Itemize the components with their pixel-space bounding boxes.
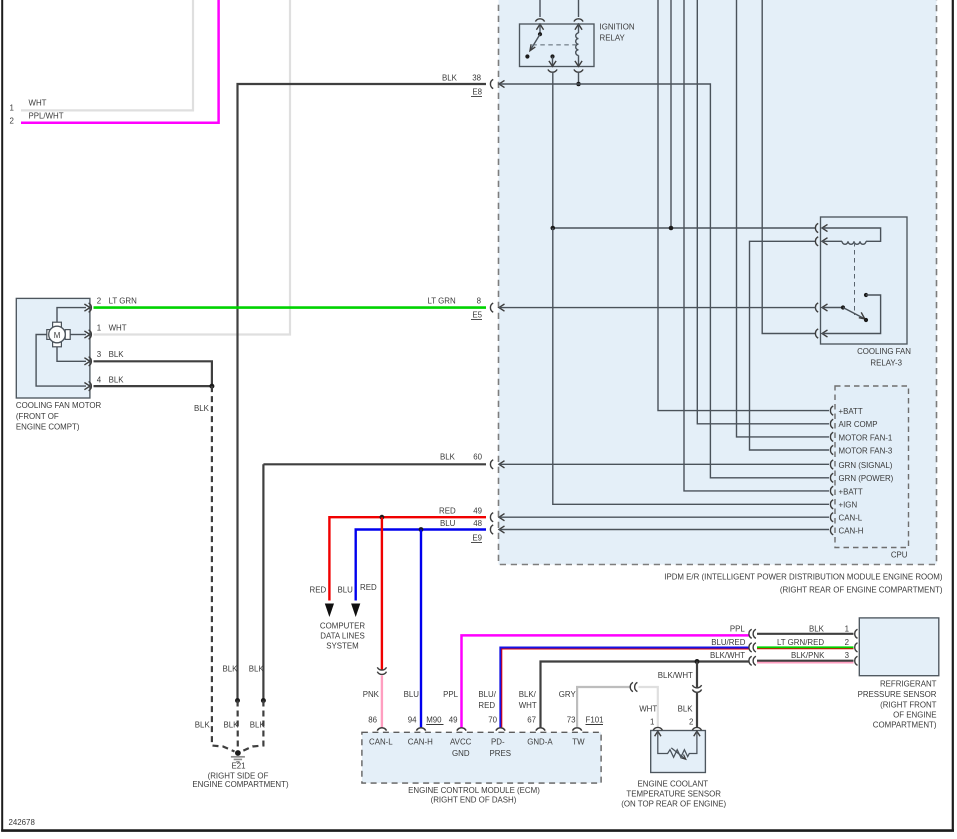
ECM pin 70 PD-PRES	[478, 690, 511, 758]
wire PPL from ECM pin 49 to inline connector	[462, 635, 750, 728]
svg-text:BLK: BLK	[224, 721, 240, 730]
junction on BLK38 run	[235, 698, 240, 703]
ground E21 symbol	[231, 750, 245, 762]
connector arrow BLU48	[499, 526, 505, 533]
svg-text:BLK/WHT: BLK/WHT	[710, 651, 745, 660]
sensor pin 3 arc	[855, 656, 858, 665]
svg-text:COMPUTER: COMPUTER	[320, 622, 365, 631]
svg-text:F101: F101	[586, 716, 604, 725]
svg-text:RED: RED	[439, 507, 456, 516]
wire BLK/PNK to sensor pin 3	[757, 661, 854, 663]
CPU pin MOTOR FAN-1	[830, 432, 892, 442]
wire BLK 60 to E9	[263, 463, 486, 465]
ignition relay switch output pin	[548, 54, 557, 72]
IPDM internal vertical feed 3 to CPU +BATT (second)	[684, 0, 829, 491]
svg-text:(RIGHT END OF DASH): (RIGHT END OF DASH)	[431, 796, 517, 805]
svg-text:E9: E9	[472, 534, 482, 543]
connector E5 male arrow into IPDM	[499, 304, 505, 311]
CPU pin +IGN	[830, 500, 857, 510]
svg-text:BLU: BLU	[440, 519, 456, 528]
relay-3 actuation dashed link	[854, 242, 856, 315]
svg-text:BLK: BLK	[223, 665, 239, 674]
svg-text:BLK: BLK	[809, 625, 825, 634]
IPDM E/R module box (dashed, light blue fill)	[499, 0, 937, 565]
svg-text:BLU: BLU	[338, 586, 354, 595]
motor pin 1 arrow and arc	[84, 331, 90, 338]
svg-text:(FRONT OF: (FRONT OF	[16, 412, 59, 421]
svg-text:CPU: CPU	[891, 551, 908, 560]
labels WHT 1 / BLK 2	[639, 705, 693, 727]
inline connector break BLU-RED/LTGRN-RED	[749, 643, 756, 652]
svg-text:+BATT: +BATT	[839, 487, 863, 496]
junction switched feed	[551, 226, 556, 231]
ECM pin socket arcs (top layer)	[377, 728, 581, 731]
relay-3 pin A arc and arrow	[815, 223, 818, 232]
CPU pin GRN (SIGNAL)	[830, 460, 892, 470]
connector E5 label	[471, 311, 483, 320]
svg-text:CAN-L: CAN-L	[839, 514, 863, 523]
motor internal wire to pin 3	[57, 347, 86, 362]
label BLK 38	[442, 74, 482, 83]
label RED 49	[439, 507, 483, 516]
svg-text:DATA LINES: DATA LINES	[320, 632, 364, 641]
svg-text:REFRIGERANT: REFRIGERANT	[880, 680, 937, 689]
svg-text:CAN-L: CAN-L	[369, 737, 393, 746]
svg-text:PPL: PPL	[443, 690, 459, 699]
ECM pin 94 CAN-H	[404, 690, 433, 746]
svg-text:PPL/WHT: PPL/WHT	[29, 112, 64, 121]
svg-text:WHT: WHT	[519, 701, 537, 710]
svg-text:ENGINE COMPT): ENGINE COMPT)	[16, 423, 80, 432]
svg-text:(ON TOP REAR OF ENGINE): (ON TOP REAR OF ENGINE)	[621, 799, 726, 808]
ECM connector M90 label	[426, 716, 443, 725]
svg-text:BLU/RED: BLU/RED	[711, 638, 746, 647]
label BLU 48	[440, 519, 483, 528]
ignition relay switch	[525, 24, 542, 59]
IPDM internal vertical feed 6 to cooling fan relay-3 contact pin D	[762, 0, 816, 334]
svg-text:MOTOR FAN-1: MOTOR FAN-1	[839, 433, 893, 442]
svg-text:+BATT: +BATT	[839, 407, 863, 416]
wire BLU 48 CAN-H	[356, 530, 486, 601]
connector E8 female arc	[490, 79, 493, 88]
svg-text:8: 8	[477, 297, 482, 306]
junction BLK/WHT branch	[695, 659, 700, 664]
arrow RED to computer data lines	[325, 604, 334, 618]
connector arc BLK60	[490, 460, 493, 469]
svg-text:BLK: BLK	[109, 376, 125, 385]
connector E5 female arc	[490, 303, 493, 312]
wire LT GRN from fan motor to E5	[94, 306, 487, 309]
wire switched feed to cooling fan relay-3 pin A	[553, 227, 816, 229]
CPU pin CAN-L	[830, 513, 862, 523]
wire WHT to coolant sensor pin 1	[639, 687, 658, 727]
wire to ignition relay coil pin (from top)	[578, 0, 580, 17]
wire BLK/WHT from ECM pin 67	[541, 662, 750, 729]
svg-text:RED: RED	[478, 701, 495, 710]
wire ignition relay coil to BLK 38 ground rail	[578, 72, 580, 84]
svg-text:COOLING FAN MOTOR: COOLING FAN MOTOR	[16, 401, 102, 410]
wire ignition relay switch output down to relay-3 feed	[552, 72, 554, 228]
svg-text:WHT: WHT	[639, 705, 657, 714]
svg-text:BLU/: BLU/	[478, 690, 496, 699]
IPDM internal vertical feed 1 to CPU +BATT	[658, 0, 829, 411]
svg-text:BLK: BLK	[249, 665, 265, 674]
inline connector break PPL/BLK	[749, 629, 756, 638]
IPDM internal vertical feed 4 to CPU AIR COMP	[697, 0, 829, 424]
ECM box (dashed)	[362, 732, 601, 804]
ignition relay coil	[574, 24, 583, 72]
svg-text:SYSTEM: SYSTEM	[326, 642, 358, 651]
CPU pin +BATT	[830, 406, 862, 416]
svg-text:AVCC: AVCC	[450, 737, 472, 746]
svg-text:COOLING FAN: COOLING FAN	[857, 347, 911, 356]
svg-text:ENGINE CONTROL MODULE (ECM): ENGINE CONTROL MODULE (ECM)	[408, 786, 540, 795]
svg-text:LT GRN/RED: LT GRN/RED	[777, 638, 824, 647]
svg-text:E21: E21	[231, 762, 245, 771]
wire PNK to ECM pin 86	[381, 675, 383, 728]
svg-text:LT GRN: LT GRN	[109, 297, 138, 306]
svg-text:94: 94	[408, 716, 417, 725]
svg-text:PPL: PPL	[730, 625, 746, 634]
svg-text:1: 1	[845, 625, 849, 634]
engine coolant temperature sensor box	[621, 731, 726, 809]
svg-text:MOTOR FAN-3: MOTOR FAN-3	[839, 446, 893, 455]
svg-text:GRY: GRY	[559, 690, 577, 699]
IPDM internal vertical feed 2 to relay contact rail	[670, 0, 672, 228]
svg-text:COMPARTMENT): COMPARTMENT)	[873, 721, 937, 730]
wire PPL/WHT (top-left connector pin 2)	[21, 0, 219, 123]
junction on BLK60 run	[261, 698, 266, 703]
svg-text:3: 3	[845, 651, 850, 660]
wire relay-3 coil return to CPU MOTOR FAN-3	[750, 241, 830, 450]
wire BLK/WHT branch down	[696, 662, 698, 688]
wire BLU branch down to ECM pin 94	[420, 530, 422, 729]
svg-text:49: 49	[449, 716, 458, 725]
CPU pin MOTOR FAN-3	[830, 445, 892, 455]
svg-text:CAN-H: CAN-H	[839, 527, 864, 536]
svg-text:M90: M90	[426, 716, 442, 725]
svg-text:IGNITION: IGNITION	[600, 23, 635, 32]
svg-text:M: M	[54, 331, 61, 340]
relay-3 fixed contact to pin D	[822, 293, 881, 334]
svg-text:BLK: BLK	[194, 404, 210, 413]
coolant sensor pin 1 arc and arrow	[653, 727, 662, 736]
labels BLU/RED / LT GRN/RED / 2	[711, 638, 849, 647]
arrow BLU to computer data lines	[351, 604, 360, 618]
motor pin 4 arrow and arc	[84, 383, 90, 390]
connector E9 label	[471, 534, 483, 543]
inline connector break BLKWHT/BLKPNK	[749, 656, 756, 665]
pin 1 label WHT	[10, 99, 47, 113]
motor pin 2 arrow and arc	[84, 304, 90, 311]
sensor pin 2 arc	[855, 643, 858, 652]
wire to ignition relay switch pin (from top)	[539, 0, 541, 17]
svg-text:RED: RED	[310, 586, 327, 595]
svg-text:WHT: WHT	[29, 99, 47, 108]
svg-text:BLK: BLK	[440, 453, 456, 462]
wire BLK from motor pin 3	[94, 361, 212, 386]
ECM connector F101 label	[586, 716, 604, 725]
connector E8 male arrow into IPDM	[499, 80, 505, 87]
motor pin labels	[97, 297, 137, 385]
svg-text:BLK/: BLK/	[519, 690, 537, 699]
connector arrow BLK60	[499, 461, 505, 468]
svg-text:PRES: PRES	[490, 749, 512, 758]
svg-text:2: 2	[97, 297, 101, 306]
svg-text:TW: TW	[572, 737, 585, 746]
inline connector break RED/PNK	[377, 667, 386, 674]
svg-text:1: 1	[97, 323, 101, 332]
svg-text:1: 1	[650, 718, 654, 727]
svg-text:BLK: BLK	[442, 74, 458, 83]
connector arc RED49	[490, 513, 493, 522]
dashed wire BLK38 run to ground	[237, 701, 239, 753]
ground E21 caption	[192, 762, 289, 790]
junction BLU branch	[419, 527, 424, 532]
relay-3 pin B arc and arrow	[815, 237, 818, 246]
ignition relay U1	[520, 23, 635, 67]
ignition relay coil pin male arrow	[575, 24, 582, 30]
svg-text:GRN (POWER): GRN (POWER)	[839, 474, 894, 483]
svg-text:RELAY: RELAY	[600, 34, 626, 43]
wire BLK 38 (ground harness from E8 down left side)	[238, 84, 487, 701]
wire E9-60 to CPU GRN (SIGNAL)	[499, 463, 829, 465]
ECM pin 73 TW	[559, 690, 585, 746]
svg-text:(RIGHT REAR OF ENGINE COMPARTM: (RIGHT REAR OF ENGINE COMPARTMENT)	[780, 586, 943, 595]
CPU pin AIR COMP	[830, 419, 877, 429]
svg-text:ENGINE COOLANT: ENGINE COOLANT	[638, 779, 709, 788]
relay-3 pin D arc and arrow	[815, 329, 818, 338]
svg-text:1: 1	[10, 104, 14, 113]
caption computer data lines system	[320, 622, 365, 651]
svg-text:E5: E5	[472, 311, 482, 320]
svg-text:67: 67	[527, 716, 536, 725]
wire E9 to CPU CAN-L	[499, 516, 829, 518]
svg-text:(RIGHT SIDE OF: (RIGHT SIDE OF	[208, 771, 269, 780]
wire WHT from motor pin 1	[94, 0, 291, 335]
ignition relay switch pin female arc	[535, 19, 544, 22]
wire BLK 60 vertical to ground	[262, 464, 264, 700]
svg-text:2: 2	[845, 638, 849, 647]
motor pin 3 arrow and arc	[84, 358, 90, 365]
wire GRY from ECM pin 73	[577, 687, 630, 728]
junction BLK pins 3/4	[209, 384, 214, 389]
motor M symbol	[47, 322, 70, 347]
ECM pin 86 CAN-L	[363, 690, 394, 746]
svg-text:WHT: WHT	[109, 323, 127, 332]
relay-3 pin C arc and arrow	[815, 303, 818, 312]
svg-text:RELAY-3: RELAY-3	[870, 359, 902, 368]
svg-text:70: 70	[488, 716, 497, 725]
labels BLK above junctions	[223, 665, 265, 674]
ignition relay switch pin male arrow	[536, 24, 543, 30]
motor internal wire to pin 4	[36, 335, 86, 387]
svg-text:LT GRN: LT GRN	[428, 297, 457, 306]
svg-text:60: 60	[473, 453, 482, 462]
connector E8 label	[471, 88, 483, 97]
svg-text:49: 49	[473, 507, 482, 516]
svg-text:BLK: BLK	[250, 721, 266, 730]
motor internal wire to pin 2	[57, 308, 86, 323]
svg-text:BLK: BLK	[195, 721, 211, 730]
svg-text:BLK/WHT: BLK/WHT	[658, 671, 693, 680]
coolant sensor pin 2 arc and arrow	[692, 727, 701, 736]
svg-text:3: 3	[97, 350, 102, 359]
svg-text:PD-: PD-	[491, 737, 505, 746]
svg-text:86: 86	[368, 716, 377, 725]
label LT GRN 8	[428, 297, 482, 306]
svg-text:2: 2	[10, 117, 14, 126]
labels PPL / BLK / 1	[730, 625, 849, 634]
labels BLK/WHT / BLK/PNK / 3	[710, 651, 850, 660]
wire LT GRN/RED to sensor pin 2	[757, 646, 854, 649]
connector arc BLU48	[490, 525, 493, 534]
svg-text:E8: E8	[472, 88, 482, 97]
wire RED 49 CAN-L	[329, 517, 486, 600]
pin 2 label PPL/WHT	[10, 112, 64, 126]
ignition relay actuation dashed link	[532, 44, 578, 46]
wire RED branch down to inline connector	[381, 517, 383, 669]
CPU pin GRN (POWER)	[830, 473, 893, 483]
wire BLK to sensor pin 1	[757, 633, 854, 635]
cooling fan relay-3	[821, 217, 912, 368]
refrigerant pressure sensor box	[858, 618, 939, 730]
inline connector break BLK/WHT	[692, 685, 701, 692]
svg-text:242678: 242678	[9, 818, 36, 827]
svg-text:CAN-H: CAN-H	[408, 737, 433, 746]
IPDM internal vertical feed 5 to CPU MOTOR FAN-1	[737, 0, 830, 437]
ECM pin 49 AVCC GND	[443, 690, 472, 758]
wire E9 to CPU CAN-H	[499, 529, 829, 531]
junction RED branch	[380, 515, 385, 520]
wire BLK from motor pin 4	[94, 385, 212, 387]
IPDM E/R caption	[664, 573, 943, 595]
svg-text:BLU: BLU	[404, 690, 420, 699]
svg-text:OF ENGINE: OF ENGINE	[893, 711, 936, 720]
relay-3 coil	[822, 228, 881, 244]
svg-text:GND-A: GND-A	[527, 737, 553, 746]
svg-text:IPDM E/R (INTELLIGENT POWER DI: IPDM E/R (INTELLIGENT POWER DISTRIBUTION…	[664, 573, 943, 582]
label BLK 60	[440, 453, 483, 462]
svg-text:48: 48	[473, 519, 482, 528]
dashed wire BLK60 run to ground	[242, 701, 264, 752]
svg-text:PRESSURE SENSOR: PRESSURE SENSOR	[858, 690, 937, 699]
svg-text:BLK/PNK: BLK/PNK	[791, 651, 825, 660]
wire WHT (top-left connector pin 1)	[21, 0, 193, 110]
cooling fan motor box	[16, 298, 102, 431]
wire +IGN from switched feed to CPU	[553, 228, 829, 504]
svg-text:ENGINE COMPARTMENT): ENGINE COMPARTMENT)	[192, 780, 289, 789]
labels BLK near ground	[195, 721, 266, 730]
ignition relay coil pin female arc	[574, 19, 583, 22]
svg-text:2: 2	[689, 718, 693, 727]
svg-text:73: 73	[567, 716, 576, 725]
coolant sensor thermistor	[658, 731, 697, 759]
svg-text:BLK: BLK	[109, 350, 125, 359]
connector arrow RED49	[499, 514, 505, 521]
motor internal wire to pin 1	[70, 334, 86, 336]
svg-text:(RIGHT FRONT: (RIGHT FRONT	[880, 700, 937, 709]
svg-text:GND: GND	[452, 749, 470, 758]
wire BLK 38 ground rail inside IPDM to GRN (POWER)	[499, 84, 829, 478]
svg-text:PNK: PNK	[363, 690, 380, 699]
svg-text:BLK: BLK	[678, 705, 694, 714]
CPU pin +BATT second	[830, 486, 862, 496]
svg-text:RED: RED	[360, 583, 377, 592]
wire E5 to relay-3 switch pin C	[499, 307, 816, 309]
svg-text:4: 4	[97, 376, 102, 385]
CPU box (dashed)	[835, 386, 909, 548]
junction feed2 on relay feed wire	[669, 226, 674, 231]
sensor pin 1 arc	[855, 629, 858, 638]
relay-3 switch	[822, 305, 868, 322]
wire BLK to coolant sensor pin 2	[696, 693, 698, 727]
svg-text:+IGN: +IGN	[839, 501, 858, 510]
ECM pin 67 GND-A	[519, 690, 554, 746]
svg-text:TEMPERATURE SENSOR: TEMPERATURE SENSOR	[626, 790, 721, 799]
wire BLU/RED from ECM pin 70	[500, 648, 749, 729]
svg-text:AIR COMP: AIR COMP	[839, 420, 878, 429]
CPU pin CAN-H	[830, 526, 863, 536]
junction coil/BLK38	[576, 82, 581, 87]
svg-text:GRN (SIGNAL): GRN (SIGNAL)	[839, 461, 893, 470]
dashed wire BLK to ground E21	[212, 386, 235, 751]
inline connector break GRY/WHT	[630, 682, 637, 691]
svg-text:38: 38	[472, 74, 481, 83]
